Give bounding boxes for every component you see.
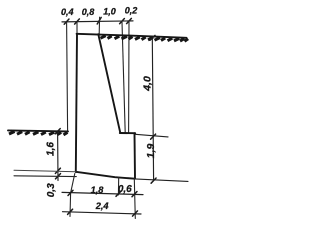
tick at 0,4 left end: [64, 19, 69, 24]
top dimension line: [62, 21, 133, 22]
tick between 1,0 and 0,2: [120, 19, 125, 24]
wall top edge and right ground surface: [77, 34, 187, 38]
tick 2,4 left: [68, 209, 73, 214]
lower-left extension vertical to bottom dimension lines: [70, 174, 75, 217]
ground hatches right: [101, 36, 106, 39]
extension line x=122 from top dim to step: [122, 22, 125, 133]
right face of base: [134, 133, 137, 178]
extension vertical between 1,8 and 0,6: [117, 177, 119, 195]
svg-text:2,4: 2,4: [95, 201, 109, 211]
bottom dimension line 1,8 / 0,6: [62, 192, 143, 194]
left dimension line 1,6 and 0,3: [57, 131, 59, 181]
wall battered back face: [98, 34, 120, 131]
footing bottom: [76, 172, 135, 179]
tick 1,6 top: [55, 129, 60, 134]
tick 2,4 right: [133, 211, 138, 216]
ground hatches left: [9, 132, 15, 135]
extension line at back-face top corner: [98, 17, 100, 34]
bottom dimension line 2,4: [63, 212, 142, 214]
left extension line upper (footing level): [14, 170, 76, 171]
svg-text:1,0: 1,0: [103, 7, 116, 17]
extension line x=129 from top dim to step: [128, 22, 130, 133]
step at base of back face: [120, 132, 135, 134]
tick between 0,8 and 1,0: [97, 17, 101, 24]
tick 0,3 bottom: [56, 174, 61, 179]
step datum line to the right: [135, 134, 168, 137]
right dimension line 4,0: [151, 38, 154, 137]
svg-text:1,8: 1,8: [91, 185, 105, 195]
bottom datum line to the right: [135, 179, 188, 182]
tick 4,0 top: [150, 35, 155, 40]
svg-text:1,6: 1,6: [46, 142, 57, 156]
tick 1,6 bottom / 0,3 top: [55, 168, 60, 173]
svg-text:0,2: 0,2: [125, 6, 138, 16]
tick 4,0 bottom / 1,9 top: [151, 134, 156, 139]
extension above wall top at stem face: [76, 22, 78, 34]
left ground line: [8, 130, 68, 131]
svg-text:0,8: 0,8: [82, 7, 95, 17]
extension vertical at footing right edge down to 2,4 line: [134, 179, 135, 219]
svg-text:0,4: 0,4: [61, 7, 74, 17]
tick 1,8 / 0,6 boundary: [116, 191, 121, 196]
left extension line lower (footing underside): [14, 175, 76, 178]
svg-text:0,6: 0,6: [118, 184, 132, 195]
tick 1,9 bottom: [151, 178, 156, 183]
wall left face: [76, 34, 77, 172]
svg-text:1,9: 1,9: [145, 144, 157, 159]
tick at 0,2 right end: [127, 18, 132, 23]
tick 0,6 right: [132, 192, 137, 197]
svg-text:4,0: 4,0: [142, 76, 154, 92]
right dimension line 1,9: [152, 137, 154, 181]
left outer extension line from top dimension to left ground: [67, 22, 68, 131]
tick between 0,4 and 0,8: [75, 19, 80, 24]
tick 1,8 left: [68, 190, 73, 195]
svg-text:0,3: 0,3: [46, 183, 57, 197]
